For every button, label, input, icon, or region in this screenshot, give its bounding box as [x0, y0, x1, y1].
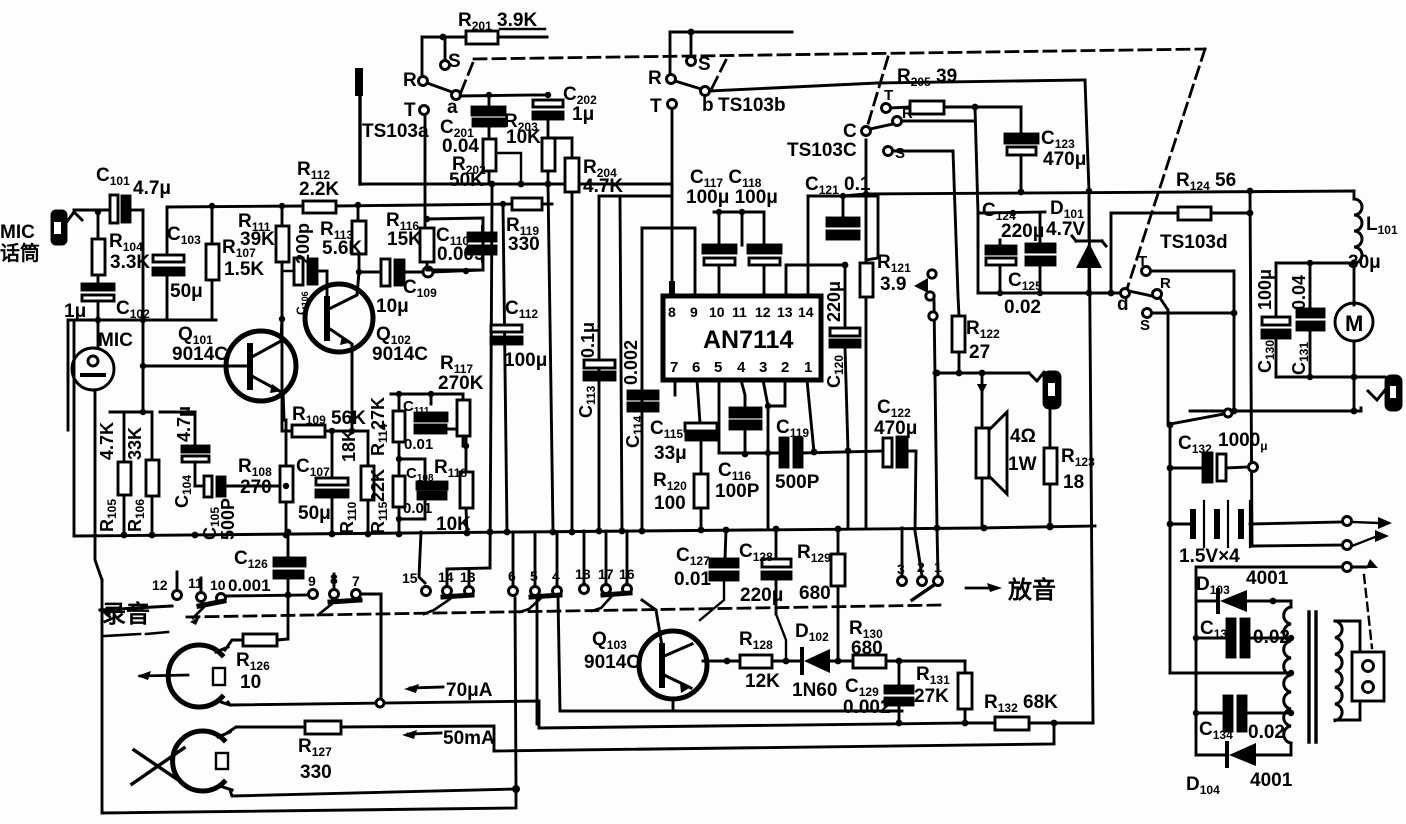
svg-text:1W: 1W [1008, 454, 1037, 475]
motor leaf switch [1170, 414, 1224, 424]
wire long return to R132 [539, 723, 967, 728]
wire jack to C101 [74, 210, 110, 212]
switch TS103C T contact [882, 104, 891, 113]
wire C130/C131 frame bottom [1276, 376, 1385, 379]
diode D104 [1196, 743, 1291, 766]
label R106 33K vertical [125, 427, 147, 532]
speaker LS [976, 373, 1007, 528]
contact 18 [583, 531, 586, 584]
wire C130/C131 frame top [1276, 262, 1354, 265]
switch TS103a S contact [444, 37, 447, 60]
wire vertical x488 [490, 184, 492, 568]
contact 15 [419, 532, 425, 583]
svg-text:220μ: 220μ [824, 281, 844, 322]
wire pin4 down to C116 [741, 380, 745, 408]
label C201 0.04 [440, 117, 479, 157]
wire S right [1152, 312, 1234, 315]
labels 12 11 10 [152, 575, 226, 593]
svg-text:12K: 12K [745, 671, 780, 692]
svg-text:AN7114: AN7114 [703, 326, 793, 354]
svg-text:0.02: 0.02 [1248, 722, 1285, 743]
blade 5-4 [531, 595, 560, 597]
wire C124 block top [978, 212, 1045, 213]
svg-text:70μA: 70μA [446, 680, 493, 701]
transistor Q101 [160, 319, 296, 420]
svg-text:T: T [650, 96, 662, 117]
capacitor C119 [780, 438, 884, 467]
label C110 0.005 [436, 225, 485, 265]
label C119 500P [775, 417, 820, 493]
label C101 4.7u [96, 165, 171, 199]
label R107 1.5K [222, 237, 264, 280]
resistor R127 [305, 721, 341, 734]
arrow into head [140, 675, 188, 676]
wire pole b to right (supply line) [710, 80, 1085, 91]
svg-text:50μ: 50μ [298, 503, 331, 524]
svg-text:3.9: 3.9 [880, 274, 906, 295]
wire center tap [1170, 672, 1289, 675]
wire vertical x553 [548, 184, 553, 531]
capacitor C107 [316, 431, 348, 535]
wire x1252 vertical [1250, 191, 1347, 546]
earphone jack J3 top right [1368, 376, 1401, 410]
svg-text:7: 7 [670, 359, 678, 376]
svg-text:50μ: 50μ [170, 281, 203, 302]
resistor R122 [952, 316, 965, 352]
wire head2 bottom loop [230, 789, 516, 796]
svg-text:11: 11 [732, 304, 747, 320]
wire Q101 base drop from input node [142, 320, 145, 412]
label R118 10K [434, 457, 471, 535]
wire R132 line [965, 722, 1093, 725]
capacitor C128 [762, 529, 791, 614]
label C125 0.02 [1004, 270, 1042, 318]
resistor R111 [276, 206, 289, 319]
label D102 1N60 [792, 621, 837, 701]
wire pin5 down to feedback line [718, 380, 721, 453]
label C122 470u [874, 397, 917, 439]
label C112 100u [504, 298, 547, 371]
contact 13 [465, 587, 474, 596]
wire speaker top rail [934, 372, 1029, 375]
wire head1 top to R126 [225, 640, 243, 650]
wire MIC bottom to left border [95, 390, 102, 580]
capacitor C132 [1170, 453, 1258, 482]
svg-text:MIC: MIC [0, 222, 35, 243]
svg-text:470μ: 470μ [1043, 149, 1086, 170]
label R111 39K [238, 211, 275, 250]
svg-text:270K: 270K [438, 373, 484, 394]
wire T to R205 [891, 107, 910, 108]
resistor R205 [910, 101, 944, 114]
label R202 50K [449, 154, 486, 191]
svg-text:4: 4 [737, 359, 746, 376]
label C129 0.002 [843, 676, 891, 718]
labels TS103d letters [1117, 232, 1228, 334]
record/play head H1 [168, 645, 230, 707]
wire left sleeve down [67, 320, 70, 430]
capacitor C130 [1262, 263, 1290, 377]
svg-text:R: R [648, 68, 662, 89]
svg-text:13: 13 [777, 304, 793, 320]
wire border left/bottom [102, 580, 516, 813]
svg-text:22K: 22K [368, 469, 388, 502]
svg-text:15: 15 [402, 570, 418, 586]
microphone MIC [72, 320, 114, 390]
rail R2 top (y=206) [167, 206, 303, 207]
capacitor C131 [1297, 263, 1324, 377]
switch TS103d pole d [1121, 289, 1130, 298]
node R113 bottom [356, 269, 362, 275]
label C128 220u [739, 541, 783, 606]
earphone jack J2 [1044, 372, 1060, 448]
label D103 4001 [1196, 568, 1289, 597]
switch TS103a pole a + blade [452, 91, 461, 100]
connector circlet node [423, 267, 433, 277]
labels 9 8 7 [308, 571, 360, 589]
svg-text:2: 2 [917, 559, 925, 575]
label 50mA with arrow [408, 733, 441, 734]
wire Q103 base up [642, 600, 662, 646]
wire TS103b T down and left [620, 109, 672, 196]
blade d [1129, 291, 1152, 296]
svg-text:100μ 100μ: 100μ 100μ [686, 187, 778, 208]
wire head1 bottom out [228, 701, 539, 728]
diode D103 [1196, 590, 1291, 612]
capacitor C125 [1026, 213, 1055, 293]
capacitor C106 [282, 258, 327, 319]
power switch contacts [1343, 517, 1352, 526]
label R115 22K vertical [368, 469, 390, 534]
blade C [870, 124, 893, 129]
svg-text:10: 10 [709, 304, 725, 320]
wire d up to R124 rail [1111, 213, 1178, 293]
svg-text:1000μ: 1000μ [1218, 430, 1268, 453]
label R128 12K [739, 629, 780, 692]
label R117 270K [438, 353, 484, 394]
label R116 15K [386, 210, 422, 250]
label C126 0.001 [228, 548, 271, 595]
svg-text:4.7V: 4.7V [1046, 219, 1085, 240]
transformer core [1309, 612, 1316, 742]
label Q103 9014C [584, 629, 640, 673]
label C109 10u [376, 277, 437, 317]
label R109 56K [292, 404, 366, 429]
svg-text:10K: 10K [506, 127, 541, 148]
svg-text:27K: 27K [914, 686, 949, 707]
svg-text:a: a [447, 97, 458, 118]
svg-text:放音: 放音 [1007, 576, 1056, 604]
svg-text:330: 330 [300, 762, 332, 783]
svg-text:220μ: 220μ [1001, 221, 1044, 242]
capacitor C101 [110, 195, 143, 223]
right border wire from jack down [1392, 409, 1395, 412]
labels 15 14 13 [402, 569, 476, 586]
contact 10 [217, 594, 226, 603]
label C107 50u [296, 456, 331, 524]
transformer T1 primary [1284, 601, 1294, 755]
label C113 0.1u vertical [576, 322, 598, 418]
contact 4 [556, 532, 559, 586]
label 1u C102 [64, 298, 150, 322]
svg-text:330: 330 [508, 234, 540, 255]
resistor R107 [206, 206, 219, 320]
svg-text:S: S [1140, 317, 1150, 334]
wire T right down [1151, 271, 1234, 411]
resistor R129 [831, 529, 845, 661]
svg-text:100μ: 100μ [504, 350, 547, 371]
svg-text:1.5V×4: 1.5V×4 [1179, 546, 1240, 567]
label D101 4.7V [1046, 198, 1085, 240]
label R131 27K [914, 664, 950, 707]
svg-text:10: 10 [240, 672, 261, 693]
wire C110 bottom line [433, 270, 483, 272]
label R110 18K vertical [337, 429, 359, 534]
label R130 680 [849, 618, 883, 659]
label C134 0.02 [1199, 719, 1285, 743]
resistor R112 [303, 201, 336, 213]
capacitor C121 [827, 218, 859, 239]
label C117 C118 100u 100u [686, 167, 778, 208]
svg-text:1: 1 [804, 359, 812, 376]
wire C101 right down to node [142, 210, 145, 320]
svg-text:4: 4 [552, 568, 560, 584]
label Q102 9014C [372, 324, 428, 365]
blade 17-16 [603, 593, 630, 595]
labels 18 17 16 [575, 566, 635, 582]
svg-text:8: 8 [330, 571, 338, 587]
svg-text:S: S [698, 54, 711, 75]
svg-text:18: 18 [1063, 472, 1084, 493]
svg-text:12: 12 [152, 577, 168, 593]
wire bias top [110, 411, 152, 414]
label R132 68K [984, 692, 1058, 717]
switch playback contacts [928, 270, 936, 278]
wire vertical x642 + C114 [641, 228, 644, 531]
resistor R203 [496, 138, 555, 184]
svg-text:MIC: MIC [98, 330, 133, 351]
svg-text:270: 270 [240, 477, 272, 498]
capacitor C126 [274, 529, 305, 639]
svg-text:T: T [404, 100, 416, 121]
label R201 3.9K [458, 10, 537, 35]
switch TS103d T contact [1142, 267, 1151, 276]
wire third contact left [1196, 567, 1342, 601]
transistor Q102 [305, 271, 373, 431]
svg-text:470μ: 470μ [874, 418, 917, 439]
label 70uA with arrow [410, 687, 443, 688]
wire contact 7 right down [361, 594, 381, 703]
label L101 30u [1348, 214, 1398, 273]
label C133 0.02 [1200, 618, 1290, 648]
label R105 4.7K vertical [97, 422, 119, 532]
capacitor C103 [153, 255, 184, 320]
label C105 500P vertical [200, 498, 238, 540]
svg-text:4.7μ: 4.7μ [174, 406, 194, 442]
svg-text:S: S [895, 145, 905, 162]
wire main bus [74, 526, 1095, 536]
inductor L101 [1351, 191, 1362, 305]
resistor R124 [1178, 207, 1211, 220]
resistor R116 [420, 116, 434, 270]
contact 11 [200, 578, 203, 592]
wire TS103C pole C down + R121 [865, 140, 868, 528]
resistor R132 [995, 717, 1029, 730]
switch TS103d R contact [1153, 290, 1162, 299]
svg-text:3: 3 [897, 561, 905, 577]
wire pin13 bracket [786, 265, 845, 296]
svg-text:10: 10 [210, 577, 226, 593]
label M [1345, 311, 1363, 336]
label C116 100P [715, 460, 760, 502]
label C202 1u [563, 84, 597, 125]
svg-text:T: T [884, 87, 893, 104]
dashed link to connector [1364, 575, 1372, 648]
label C108 0.01 [403, 465, 434, 517]
label C115 33u [650, 418, 687, 464]
wire pole a right [460, 95, 535, 96]
node wire input [68, 319, 216, 322]
svg-text:2.2K: 2.2K [299, 179, 339, 200]
svg-text:0.002: 0.002 [621, 340, 641, 385]
contact 8 [333, 574, 336, 589]
switch TS103a T contact [420, 106, 429, 115]
svg-text:R: R [403, 70, 417, 91]
capacitor C133 [1196, 619, 1289, 657]
svg-text:TS103b: TS103b [718, 95, 786, 116]
mic jack J1 [52, 211, 82, 244]
transistor Q103 [639, 631, 740, 699]
svg-text:100: 100 [654, 493, 686, 514]
svg-text:100μ: 100μ [1255, 269, 1275, 310]
wire bottom rail y411 [1190, 408, 1361, 411]
labels 3 2 1 [897, 559, 942, 577]
wire C101 left down to R104 [97, 210, 100, 239]
wire pin6 down + C115 + R120 [697, 380, 700, 423]
capacitor C121 frame [808, 196, 878, 260]
svg-text:6: 6 [692, 359, 700, 376]
wire supply vertical x1089 [1085, 80, 1093, 723]
svg-text:7: 7 [352, 573, 360, 589]
svg-text:14: 14 [438, 569, 454, 585]
svg-text:6: 6 [508, 568, 516, 584]
svg-text:0.02: 0.02 [1004, 297, 1041, 318]
svg-text:9014C: 9014C [584, 652, 640, 673]
label Q101 9014C [172, 324, 228, 365]
svg-text:4Ω: 4Ω [1010, 426, 1036, 447]
switch TS103b pole b + blade [701, 87, 710, 96]
capacitor C112 [491, 325, 522, 344]
contact 2 [915, 531, 922, 576]
wire feed 14-13 [447, 568, 490, 569]
label R127 330 [298, 736, 332, 783]
svg-text:4.7K: 4.7K [583, 176, 623, 197]
label R205 39 [897, 66, 957, 91]
contact 12 [176, 572, 179, 590]
label R120 100 [653, 470, 687, 514]
resistor R110 [361, 431, 374, 534]
blade 2-1 [912, 585, 934, 600]
wire vertical x507 + R119 [503, 204, 507, 531]
wire pin3 down to bus [763, 380, 768, 528]
svg-text:9014C: 9014C [372, 344, 428, 365]
label R124 56 [1176, 170, 1236, 195]
wire left stub down to rail R1 [358, 74, 361, 184]
svg-text:4001: 4001 [1250, 770, 1293, 791]
svg-text:15K: 15K [387, 229, 422, 250]
capacitor C127 [700, 530, 738, 620]
label MIC 话筒 [0, 222, 40, 265]
IC U1 AN7114 [663, 296, 821, 380]
wire C202/R204 top link [548, 137, 572, 140]
capacitor C115 [685, 423, 717, 474]
resistor R121 [860, 263, 873, 297]
label R204 4.7K [583, 157, 623, 197]
contact 7 [352, 590, 361, 599]
resistor R130 [853, 655, 886, 668]
svg-text:b: b [702, 95, 714, 116]
wire C120 vertical [845, 265, 848, 529]
svg-text:680: 680 [851, 638, 883, 659]
resistor R104 [92, 239, 105, 275]
label R123 18 [1061, 446, 1095, 493]
label R126 10 [236, 650, 270, 693]
blade 8-7 [330, 600, 360, 602]
resistor R202 [483, 139, 496, 184]
capacitor C105 [195, 476, 286, 497]
resistor R114 [393, 394, 405, 459]
dashed linkage bus D1 [461, 49, 1205, 289]
svg-text:9: 9 [308, 573, 316, 589]
svg-text:200p: 200p [293, 223, 313, 264]
contact 17 [605, 531, 608, 584]
labels 6 5 4 [508, 568, 560, 584]
svg-text:17: 17 [598, 566, 614, 582]
wire Q103 emitter down [672, 698, 675, 711]
svg-text:33K: 33K [125, 427, 145, 460]
switch TS103b top wire [670, 31, 792, 34]
label C120 220u vertical [824, 281, 846, 388]
rail R3 long horizontal [808, 191, 1354, 196]
wire pin8 feed from rail R1 [671, 184, 674, 296]
motor M [1335, 303, 1373, 380]
resistor R118 [460, 446, 473, 534]
label 1.5Vx4 [1179, 546, 1240, 567]
capacitor C109 [359, 259, 424, 286]
svg-text:4.7μ: 4.7μ [133, 178, 171, 199]
switch TS103C pole C [862, 127, 871, 136]
svg-text:1N60: 1N60 [792, 680, 837, 701]
svg-text:0.01: 0.01 [404, 436, 433, 453]
svg-text:39K: 39K [240, 229, 275, 250]
wire vertical x599 + C113 [598, 196, 601, 531]
resistor R204 [565, 138, 579, 531]
wire R205 node down to C124 block [975, 107, 978, 213]
label C106 200P vertical [293, 223, 313, 315]
capacitor C129 [885, 661, 913, 723]
resistor R131 [958, 661, 972, 726]
svg-text:0.1μ: 0.1μ [578, 322, 598, 358]
capacitor C111 [415, 394, 466, 446]
svg-text:220μ: 220μ [740, 585, 783, 606]
capacitor C104 [160, 412, 209, 486]
label R114 27K vertical [368, 397, 390, 456]
label C130 100u vertical [1255, 269, 1277, 373]
wire TS103C S line down to R122 [953, 151, 959, 316]
wire S contact right [893, 150, 953, 153]
wire left vertical x1170 [1169, 424, 1172, 673]
svg-text:0.01: 0.01 [403, 500, 432, 517]
